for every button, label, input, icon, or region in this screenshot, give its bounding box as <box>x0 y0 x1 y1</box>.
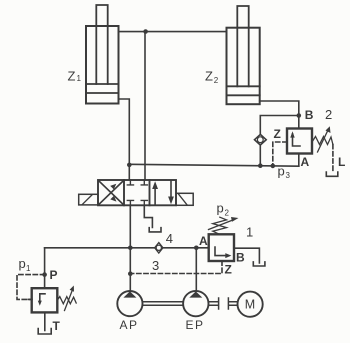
pilot line Z of valve 1 (dashed) <box>131 261 222 274</box>
label 2 <box>325 107 332 122</box>
label Z2 <box>205 69 219 86</box>
svg-text:3: 3 <box>152 258 159 273</box>
wire top junction down to valve port <box>144 32 146 181</box>
label B <box>236 251 245 265</box>
wire Z1 top to Z2 top <box>119 31 227 33</box>
relief valve body <box>32 288 58 312</box>
wire Z2 bottom to node B <box>260 101 299 129</box>
svg-text:T: T <box>53 319 61 333</box>
svg-text:Z: Z <box>68 69 76 84</box>
label Z <box>225 263 232 277</box>
coupling to motor <box>209 298 238 309</box>
pressure valve U1 internal arrow <box>215 247 227 256</box>
svg-text:2: 2 <box>225 209 230 218</box>
label T <box>53 319 61 333</box>
blocked ports in centre square <box>127 180 147 205</box>
crossed arrows in left square <box>99 181 124 205</box>
cylinder Z1 <box>86 5 119 104</box>
wire A-line horizontal <box>129 164 298 166</box>
label L <box>338 155 345 169</box>
pilot port stub of relief valve <box>28 298 32 300</box>
svg-text:Z: Z <box>274 127 281 141</box>
label Z1 <box>68 69 82 84</box>
cylinder Z2 <box>227 6 260 104</box>
label p2 <box>217 201 230 218</box>
svg-text:4: 4 <box>166 231 173 246</box>
svg-text:Z: Z <box>205 69 213 84</box>
label AP <box>120 318 139 332</box>
node AP line x pilot line 3 <box>128 271 133 276</box>
node Z1 line x A-line <box>127 163 132 168</box>
svg-text:A: A <box>199 234 208 248</box>
label B <box>305 108 314 122</box>
label A <box>301 155 310 169</box>
pump EP <box>183 291 208 316</box>
svg-text:2: 2 <box>325 107 332 122</box>
drain of directional valve <box>144 205 152 227</box>
label Z <box>274 127 281 141</box>
check valve (diamond with ball) at valve 2 inlet <box>255 134 267 145</box>
left solenoid <box>79 194 98 205</box>
drain line L of valve 2 (dashed) <box>332 145 334 172</box>
wire relief valve riser <box>44 248 46 288</box>
tank symbol at L <box>326 172 338 176</box>
label A <box>199 234 208 248</box>
relief valve internal arrow <box>40 294 45 302</box>
motor M <box>238 292 263 317</box>
svg-text:L: L <box>338 155 345 169</box>
pressure valve U2 body <box>287 129 312 154</box>
label P <box>50 268 58 282</box>
svg-text:A: A <box>301 155 310 169</box>
wire pump EP riser <box>195 248 197 291</box>
svg-text:P: P <box>50 268 58 282</box>
node A (valve 1 inlet) <box>194 246 199 251</box>
svg-text:p: p <box>19 256 26 271</box>
node top junction <box>143 29 148 34</box>
spring of valve 1 <box>213 217 227 234</box>
node P <box>42 272 47 277</box>
node diamond bottom junction <box>258 163 263 168</box>
svg-text:Z: Z <box>225 263 232 277</box>
shaft between pumps <box>143 302 184 306</box>
svg-text:1: 1 <box>26 264 31 273</box>
node B <box>297 113 302 118</box>
label EP <box>186 318 205 332</box>
wire pump AP riser <box>129 205 131 291</box>
pump AP <box>117 291 142 316</box>
adjust arrow of relief valve spring <box>65 290 73 311</box>
label 3 <box>152 258 159 273</box>
pilot line Z of valve 2 (dashed) <box>273 142 287 165</box>
svg-text:AP: AP <box>120 318 139 332</box>
tank symbol at valve 1 B <box>253 262 265 266</box>
wire B to check valve branch <box>260 116 299 166</box>
label p3 <box>278 164 291 181</box>
label 4 <box>166 231 173 246</box>
svg-text:3: 3 <box>286 171 291 180</box>
wire valve 2 A port <box>298 154 300 167</box>
wire T port <box>44 312 46 330</box>
label p1 <box>19 256 32 273</box>
right solenoid <box>176 193 193 205</box>
svg-text:M: M <box>245 298 255 312</box>
node p3 junction <box>271 164 276 169</box>
spring of valve 2 <box>313 137 333 145</box>
check valve 4 (diamond with ball) <box>155 243 163 253</box>
svg-text:p: p <box>217 201 224 216</box>
adjust arrow of valve 1 spring <box>209 220 234 230</box>
svg-text:EP: EP <box>186 318 205 332</box>
svg-text:p: p <box>278 164 285 179</box>
svg-text:B: B <box>305 108 314 122</box>
svg-text:2: 2 <box>214 76 219 85</box>
wire Z1 bottom to A-line and valve port <box>119 99 130 180</box>
pressure valve U1 body <box>209 234 234 261</box>
svg-text:B: B <box>236 251 245 265</box>
pilot line p1 (dashed) <box>17 275 45 300</box>
node pump AP line x pressure line <box>128 246 133 251</box>
svg-text:1: 1 <box>246 225 253 240</box>
tank symbol under directional valve <box>149 228 161 232</box>
spring of relief valve <box>58 297 77 304</box>
adjust arrow of valve 2 spring <box>318 129 329 152</box>
straight arrows in right square <box>154 185 156 205</box>
pressure valve U2 internal arrow <box>293 134 301 146</box>
wire valve 1 B port to tank <box>234 248 259 263</box>
pressure line from relief valve corner to valve 1 <box>45 247 209 249</box>
tank symbol at T <box>38 329 51 334</box>
label 1 <box>246 225 253 240</box>
svg-text:1: 1 <box>77 74 82 83</box>
directional valve body (3 position) <box>98 180 176 205</box>
